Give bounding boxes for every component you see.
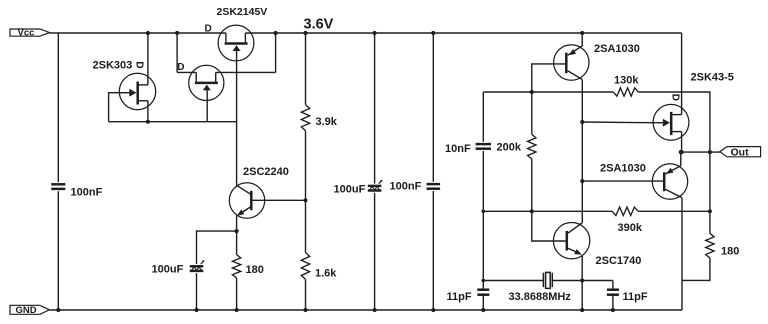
junction ground rail x=483.3: [481, 308, 485, 312]
wire 11pF left top: [482, 281, 484, 290]
junction emitter / out node: [679, 150, 683, 154]
capacitor 100nF (rail): [427, 184, 441, 189]
svg-text:390k: 390k: [618, 222, 643, 234]
junction ground rail x=374.6: [373, 308, 377, 312]
transistor 2SC2240: [229, 183, 264, 218]
junction emitter / crystal wire: [580, 278, 584, 282]
junction collector bus / 2SA1030 lower base: [580, 179, 584, 183]
junction ground rail x=236.6: [235, 308, 239, 312]
svg-text:10nF: 10nF: [445, 143, 471, 155]
label 180 (emitter): [246, 264, 264, 276]
wire Vcc rail: [49, 32, 226, 34]
transistor 2SK2145V upper unit: [218, 25, 254, 61]
svg-text:200k: 200k: [497, 142, 522, 154]
node 3.6V label: [304, 17, 334, 33]
svg-text:2SA1030: 2SA1030: [594, 43, 640, 55]
svg-text:100uF: 100uF: [334, 184, 366, 196]
label 2SC1740: [596, 255, 642, 267]
wire 2SA1030 upper base: [532, 64, 566, 92]
wire left column upper: [57, 33, 59, 182]
capacitor 100uF (emitter): [190, 260, 205, 271]
junction gate bus / 2SK303 source: [146, 120, 150, 124]
svg-text:2SC1740: 2SC1740: [596, 255, 642, 267]
wire dual-JFET source exit: [216, 71, 276, 73]
svg-text:100nF: 100nF: [390, 181, 422, 193]
label 2SK2145V: [217, 6, 268, 18]
svg-text:2SK303: 2SK303: [93, 60, 133, 72]
label 10nF: [445, 143, 471, 155]
wire 2SK303 gate loop: [109, 93, 120, 122]
wire 390k to out column: [638, 210, 710, 212]
wire 2SK2145V lower gate: [206, 90, 208, 121]
wire 2SC1740 emitter: [581, 255, 583, 310]
capacitor 11pF (left): [477, 290, 489, 295]
wire 180 output to ground: [682, 258, 710, 280]
junction ground rail x=196.5: [194, 308, 198, 312]
transistor 2SK303: [119, 73, 155, 109]
junction on rail at 100nF: [431, 31, 435, 35]
svg-text:100uF: 100uF: [152, 264, 184, 276]
resistor 180 (output): [706, 233, 714, 258]
svg-text:Vcc: Vcc: [18, 27, 35, 38]
label 2SA1030 (upper): [594, 43, 640, 55]
wire 2SA1030 lower collector: [681, 198, 683, 310]
label 180 (output): [721, 246, 739, 258]
wire 10nF bottom: [482, 151, 484, 211]
svg-text:2SK43-5: 2SK43-5: [691, 72, 734, 84]
junction node-B / 200k top: [530, 90, 534, 94]
svg-text:130k: 130k: [614, 75, 639, 87]
svg-text:D: D: [669, 94, 680, 101]
pin label D (2SK303): [133, 61, 144, 68]
svg-text:2SK2145V: 2SK2145V: [217, 6, 268, 18]
junction 390k / out column: [708, 209, 712, 213]
svg-text:33.8688MHz: 33.8688MHz: [509, 291, 572, 303]
svg-text:D: D: [205, 24, 212, 35]
label 33.8688MHz: [509, 291, 572, 303]
svg-text:11pF: 11pF: [623, 291, 648, 303]
wire 11pF left bottom: [482, 296, 484, 311]
wire gate bus: [109, 121, 237, 123]
label 200k: [497, 142, 522, 154]
svg-text:100nF: 100nF: [71, 187, 103, 199]
label 100nF (rail): [390, 181, 422, 193]
wire 180 to ground: [236, 278, 238, 310]
wire 2SK303 source: [147, 101, 149, 122]
svg-text:180: 180: [721, 246, 739, 258]
wire 100uF rail branch top: [374, 33, 376, 184]
crystal X1 33.8688MHz: [543, 272, 552, 288]
svg-text:3.6V: 3.6V: [304, 17, 334, 33]
junction source / out: [680, 150, 684, 154]
wire 3.6V rail: [245, 32, 681, 34]
wire 2SK43-5 gate: [582, 121, 653, 124]
junction ground rail x=58.3: [56, 308, 60, 312]
wire crystal right: [552, 280, 613, 282]
capacitor 10nF: [476, 144, 491, 149]
power flag Vcc: [10, 27, 49, 38]
wire 2SK303 drain: [147, 33, 149, 85]
junction on rail at JFET source: [274, 31, 278, 35]
junction mid / 200k bottom: [530, 209, 534, 213]
svg-text:1.6k: 1.6k: [315, 268, 337, 280]
label 11pF (right): [623, 291, 648, 303]
transistor 2SA1030 lower: [652, 164, 687, 199]
junction ground rail x=582.2: [580, 308, 584, 312]
wire 10nF top: [482, 92, 484, 142]
junction on rail at 2SA1030 emitter: [580, 31, 584, 35]
wire 100nF rail branch bottom: [432, 191, 434, 310]
resistor 390k: [612, 207, 638, 215]
transistor 2SC1740: [553, 223, 589, 259]
power flag GND: [10, 305, 49, 316]
wire 100uF rail branch bottom: [374, 193, 376, 310]
wire divider middle: [305, 131, 307, 253]
label 100uF (rail): [334, 184, 366, 196]
wire 2SC1740 base feed: [532, 211, 566, 241]
wire 100uF branch bottom: [196, 273, 198, 310]
capacitor 100uF (rail): [368, 180, 383, 191]
junction on rail at dual-JFET drain: [175, 31, 179, 35]
junction base / 3.9k-1.6k node: [303, 198, 307, 202]
wire 100nF rail branch top: [432, 33, 434, 182]
wire 2SA1030 lower emitter: [680, 153, 682, 166]
svg-text:D: D: [133, 61, 144, 68]
label 2SC2240: [243, 166, 289, 178]
transistor 2SK2145V lower unit: [189, 65, 224, 100]
resistor 200k: [528, 134, 536, 159]
svg-text:GND: GND: [16, 305, 37, 316]
wire 100uF branch top: [197, 231, 237, 264]
pin label D (2SK2145V upper): [205, 24, 212, 35]
junction ground rail x=433.3: [431, 308, 435, 312]
junction mid / 10nF column: [482, 210, 486, 214]
resistor 130k: [613, 88, 638, 96]
wire 2SK43-5 source: [681, 132, 683, 153]
resistor 180 (emitter): [232, 255, 240, 278]
svg-text:3.9k: 3.9k: [316, 116, 338, 128]
wire out: [682, 151, 720, 153]
wire 2SA1030 lower base: [582, 180, 663, 182]
wire mid horizontal left: [483, 210, 612, 212]
junction crystal wire / 10nF column: [482, 279, 486, 283]
label 130k: [614, 75, 639, 87]
transistor 2SK43-5: [653, 104, 689, 140]
label 1.6k: [315, 268, 337, 280]
wire 11pF right bottom: [612, 296, 614, 311]
svg-text:D: D: [177, 62, 184, 73]
wire 2SC2240 base: [253, 199, 306, 201]
label 2SA1030 (lower): [600, 163, 646, 175]
wire dual-JFET source riser: [275, 33, 277, 72]
pin label D (2SK2145V lower): [177, 62, 184, 73]
svg-text:11pF: 11pF: [447, 291, 472, 303]
wire ground rail: [49, 309, 682, 311]
wire crystal left: [483, 280, 543, 282]
label 3.9k: [316, 116, 338, 128]
label 100nF (left): [71, 187, 103, 199]
svg-text:2SC2240: 2SC2240: [243, 166, 289, 178]
junction ground rail x=612.9: [611, 308, 615, 312]
junction collector bus / 2SK43 gate: [580, 120, 584, 124]
junction ground rail x=305.5: [303, 308, 307, 312]
junction emitter / 100uF branch: [235, 229, 239, 233]
pin label D (2SK43-5): [669, 94, 680, 101]
svg-text:2SA1030: 2SA1030: [600, 163, 646, 175]
capacitor 11pF (right): [607, 290, 619, 295]
label 390k: [618, 222, 643, 234]
wire 130k to out column: [638, 92, 710, 152]
wire 2SA1030 upper emitter: [581, 33, 583, 46]
wire 11pF right top: [612, 281, 614, 290]
junction on rail at 100uF: [373, 31, 377, 35]
wire 2SC2240 emitter upper: [236, 216, 238, 255]
svg-text:180: 180: [246, 264, 264, 276]
wire dual-JFET drain drop: [176, 33, 178, 72]
transistor 2SA1030 upper: [554, 45, 589, 80]
wire dual-JFET drain entry: [177, 71, 196, 73]
wire 2SK2145V upper gate: [236, 51, 238, 186]
wire out column upper: [709, 152, 711, 233]
wire rail corner to 2SK43-5 drain: [681, 33, 683, 115]
wire 10nF column to crystal: [482, 211, 484, 280]
label 11pF (left): [447, 291, 472, 303]
junction out / 180 column: [708, 150, 712, 154]
junction on rail at 3.9k: [303, 31, 307, 35]
wire node-B horizontal: [483, 91, 613, 93]
wire left column lower: [57, 191, 59, 310]
svg-text:Out: Out: [731, 147, 750, 159]
wire 3.9k top: [305, 33, 307, 105]
wire 200k top: [531, 92, 533, 134]
label 2SK303: [93, 60, 133, 72]
junction on rail at 2SK303 drain: [146, 31, 150, 35]
wire 2SA1030 upper collector bus: [581, 79, 583, 222]
wire 1.6k bottom: [305, 279, 307, 310]
capacitor 100nF (left): [51, 184, 65, 189]
signal flag Out: [720, 147, 761, 159]
label 2SK43-5: [691, 72, 734, 84]
label 100uF (emitter): [152, 264, 184, 276]
resistor 3.9k: [301, 105, 309, 131]
resistor 1.6k: [301, 253, 309, 280]
wire 200k bottom: [531, 159, 533, 211]
